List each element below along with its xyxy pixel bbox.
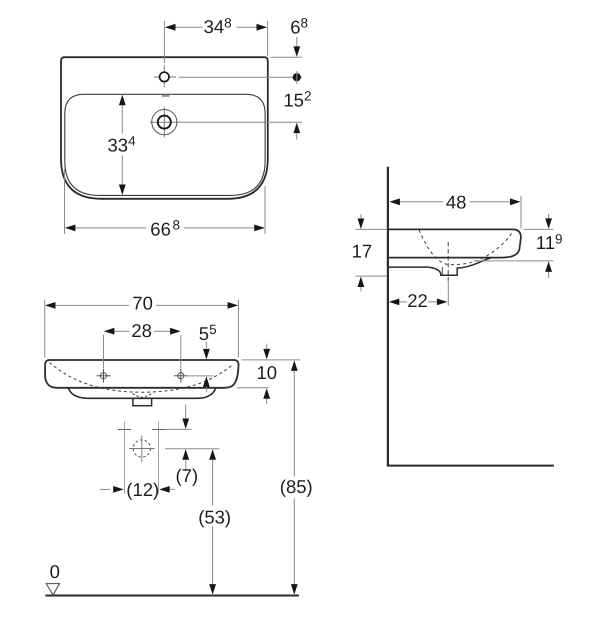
svg-text:334: 334 xyxy=(108,133,137,155)
svg-text:22: 22 xyxy=(407,290,428,311)
datum triangle xyxy=(46,584,59,595)
dim 33.4 arrow down xyxy=(119,185,126,196)
dim 10 up arrow tail xyxy=(266,399,268,404)
svg-text:48: 48 xyxy=(446,191,467,212)
svg-text:10: 10 xyxy=(257,362,278,383)
drain center reference line xyxy=(165,448,219,450)
svg-text:152: 152 xyxy=(283,89,311,111)
dim 48 line xyxy=(400,201,444,203)
front tap hole cross left xyxy=(100,373,106,379)
dim 48 arrow right xyxy=(510,198,521,205)
dim 28 arrow left xyxy=(104,328,115,335)
dim (12) left tail xyxy=(100,488,110,490)
svg-text:348: 348 xyxy=(204,15,232,37)
dim 10 top extension xyxy=(242,359,301,361)
mounting hole cross right xyxy=(152,428,165,430)
dim 22 line xyxy=(399,301,407,303)
svg-text:668: 668 xyxy=(150,218,180,240)
front view rim outline xyxy=(45,360,239,388)
svg-text:68: 68 xyxy=(290,16,308,38)
dim 70 arrow right xyxy=(228,302,239,309)
dim (85) bottom arrow xyxy=(291,584,298,595)
dim 11.9 bottom arrow tail xyxy=(548,272,550,278)
dim 66.8 arrow right xyxy=(254,225,265,232)
dim (53) top arrow xyxy=(209,449,216,460)
overflow slot xyxy=(162,95,170,97)
dim 17 bottom arrow tail xyxy=(360,287,362,291)
svg-text:70: 70 xyxy=(132,293,153,314)
dim 5.5 up arrow xyxy=(203,376,210,387)
dim 22 arrow right xyxy=(437,299,448,306)
dim 22 right extension xyxy=(447,282,449,306)
dim 34.8 right extension xyxy=(267,21,269,56)
dim 66.8 right extension xyxy=(264,186,266,234)
dim (53) line upper xyxy=(212,460,214,506)
dim 66.8 arrow left xyxy=(65,225,76,232)
dim 48 right extension xyxy=(520,196,522,229)
front view drain boss xyxy=(133,398,152,405)
front view bowl outline xyxy=(68,388,216,399)
side view basin profile xyxy=(389,229,521,257)
svg-text:(85): (85) xyxy=(280,476,313,497)
svg-text:55: 55 xyxy=(199,322,217,344)
front view drain recess dashed xyxy=(133,394,152,398)
dim 34.8 line xyxy=(166,26,203,28)
mounting hole cross left xyxy=(118,428,131,430)
dim 11.9 top extension xyxy=(524,228,554,230)
side view wall line xyxy=(387,167,389,465)
dim 33.4 line xyxy=(121,105,123,134)
dim 5.5 top line xyxy=(205,342,207,349)
dim (7) down arrow xyxy=(182,419,189,430)
tap hole xyxy=(160,72,169,81)
svg-text:(53): (53) xyxy=(198,506,231,527)
dim 28 arrow right xyxy=(170,328,181,335)
leader line tap hole to dot xyxy=(179,76,302,78)
dim 10 down arrow xyxy=(263,349,270,360)
drain boss inner edge xyxy=(441,267,443,275)
dim 11.9 bottom extension xyxy=(474,260,553,262)
svg-text:(7): (7) xyxy=(176,465,199,486)
dim 70 left extension xyxy=(44,300,46,358)
dim (12) left arrow xyxy=(113,486,124,493)
dim (85) line upper xyxy=(293,371,295,477)
dim 66.8 left extension xyxy=(64,169,66,234)
dim 28 leaders xyxy=(103,335,105,369)
drain outer circle xyxy=(152,110,177,135)
top edge extension line xyxy=(270,56,302,58)
dim 66.8 line xyxy=(66,227,147,229)
dim 15.2 arrow tail xyxy=(296,133,298,139)
dim 22 arrow left xyxy=(389,299,400,306)
dim 33.4 arrow up xyxy=(119,95,126,106)
dim 10 up arrow xyxy=(263,388,270,399)
svg-text:17: 17 xyxy=(352,240,373,261)
dim 70 arrow left xyxy=(45,302,56,309)
dim 70 right extension xyxy=(237,300,239,358)
front view inner bowl dashed curve xyxy=(49,363,233,393)
dim 34.8 arrow right xyxy=(257,24,268,31)
dim (85) top arrow xyxy=(291,360,298,371)
dim (53) bottom arrow xyxy=(209,584,216,595)
dim 11.9 top arrow tail xyxy=(548,214,550,219)
dim 10 top arrow tail xyxy=(266,344,268,349)
dim (85) line lower xyxy=(293,499,295,586)
dim 5.5 down arrow xyxy=(203,349,210,360)
drain crosshair horizontal xyxy=(150,121,180,123)
dim 70 line xyxy=(46,304,129,306)
side view under-basin step and drain boss xyxy=(389,258,491,275)
dim (12) right tail xyxy=(170,488,175,490)
dim (7) up arrow xyxy=(182,449,189,460)
dim 28 line xyxy=(105,330,130,332)
dim (7) down arrow tail xyxy=(185,405,187,419)
svg-text:(12): (12) xyxy=(126,479,159,500)
drain crosshair vertical xyxy=(163,107,165,138)
washbasin top view inner bowl outline xyxy=(65,94,265,195)
dim (53) line lower xyxy=(212,526,214,585)
svg-text:0: 0 xyxy=(50,561,60,582)
svg-text:28: 28 xyxy=(131,320,152,341)
side view drain dashed centerline xyxy=(447,242,449,284)
dim 17 top arrow tail xyxy=(360,214,362,219)
dim 10 bottom extension xyxy=(237,387,269,389)
front view floor line xyxy=(45,595,299,597)
tap hole crosshair vertical xyxy=(163,65,165,87)
dim (7) up arrow tail xyxy=(185,460,187,471)
dim 15.2 up arrow xyxy=(293,123,300,134)
dim 5.5 arrow tail xyxy=(205,387,207,392)
dim 6.8 down arrow xyxy=(293,46,300,57)
front tap hole cross right xyxy=(178,373,184,379)
side view bowl hidden dashed curve xyxy=(419,230,512,265)
dim 48 arrow left xyxy=(389,198,400,205)
dim 34.8 arrow left xyxy=(165,24,176,31)
dim 17 top arrow xyxy=(358,219,365,230)
tap hole crosshair horizontal xyxy=(154,76,176,78)
drain leader line right xyxy=(177,121,302,123)
mounting holes reference line xyxy=(165,428,192,430)
dim 11.9 bottom arrow xyxy=(545,261,552,272)
washbasin top view outer outline xyxy=(61,57,268,199)
dim 34.8 left extension xyxy=(163,21,165,63)
dim 11.9 top arrow xyxy=(545,218,552,229)
dim 6.8 vertical line xyxy=(296,37,298,47)
side view floor line xyxy=(387,465,554,467)
dim 5.5 tap line xyxy=(187,375,214,377)
drain inner circle xyxy=(158,116,171,129)
svg-text:119: 119 xyxy=(536,231,563,253)
dimension dot terminator xyxy=(293,73,301,81)
dim 17 bottom arrow xyxy=(358,277,365,288)
dim 17 bottom extension xyxy=(355,275,387,277)
dim 17 top extension xyxy=(355,228,387,230)
dim (12) right arrow xyxy=(159,486,170,493)
drain target dashed circle xyxy=(133,440,150,457)
dot vertical line xyxy=(296,71,298,84)
